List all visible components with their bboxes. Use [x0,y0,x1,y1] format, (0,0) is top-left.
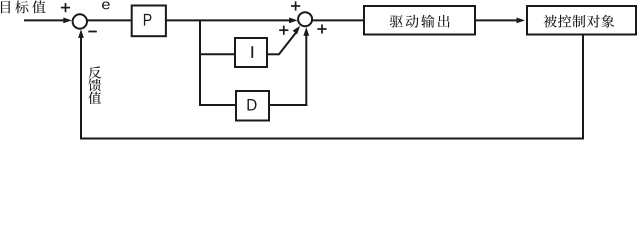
node e: error signal label [102,2,110,10]
wire: feedback bottom run [80,138,584,140]
wire: feedback up into S1 [80,34,82,140]
plus sign: S1 setpoint input [61,3,70,12]
wire: setpoint input into summing junction S1 [24,19,65,21]
summing junction S2 [298,12,312,26]
block: controlled object 被控制对象 [527,6,636,35]
minus sign: S1 feedback input [88,31,97,33]
wire: D output vertical up to S2 [305,33,307,106]
arrowhead: into controlled object [517,18,526,24]
block: drive output 驱动输出 [364,6,475,35]
wire: feedback down from controlled object [582,35,584,140]
wire: P to summing junction S2 [165,19,291,21]
arrowhead: D output into S2 [303,27,309,36]
block P: proportional [132,6,166,37]
wire: S2 to drive block [312,19,364,21]
wire: D output horizontal [268,104,307,106]
wire: I output stub [267,53,279,55]
label: setpoint text 目标值 [1,1,46,14]
block D: derivative [236,91,269,121]
wire: drive block to controlled object [475,19,519,21]
wire: I output diagonal up to S2 [279,31,297,55]
summing junction S1 [73,14,87,28]
block I: integral [235,38,267,67]
wire: S1 to P block [87,19,133,21]
wire: branch to I block [199,53,235,55]
arrowhead: feedback into S1 [78,29,84,38]
label: feedback text 反馈值 (vertical) [88,66,101,104]
arrowhead: P output into S2 [289,18,298,24]
arrowhead: I output into S2 [293,24,303,34]
wire: branch vertical from P output down to I and D rows [199,19,201,105]
plus sign: S2 top input [291,1,300,10]
wire: branch to D block [199,104,236,106]
arrowhead: setpoint into S1 [63,18,72,24]
plus sign: S2 lower-left input [279,26,288,35]
plus sign: S2 lower-right input [317,24,326,33]
